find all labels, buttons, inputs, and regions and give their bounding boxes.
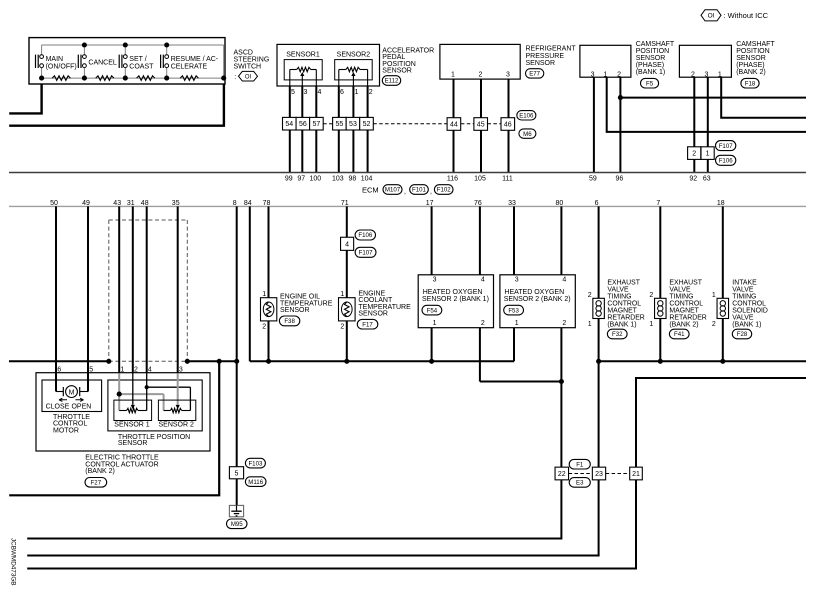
wire exhaust valve retarder bank2 pin1 to bus xyxy=(659,319,661,362)
svg-text:23: 23 xyxy=(595,471,603,478)
accelerator pedal position sensor box E112 xyxy=(277,44,380,86)
exhaust valve timing control magnet retarder bank2 coil F41 xyxy=(649,292,666,328)
svg-text:78: 78 xyxy=(263,200,271,207)
HO2S bank2 labels xyxy=(504,289,571,303)
wire ECM 8 ground wire to M95 xyxy=(236,206,238,505)
APP sensor pin numbers 5 3 4 6 1 2 xyxy=(291,89,373,96)
svg-text:VALVE: VALVE xyxy=(669,286,691,293)
svg-text:1: 1 xyxy=(588,321,592,328)
svg-text:OI: OI xyxy=(708,13,715,20)
throttle control motor M symbol xyxy=(56,373,88,397)
wire APP pin3 to ECM 97 xyxy=(301,86,303,173)
svg-text:TIMING: TIMING xyxy=(669,293,693,300)
svg-text:(BANK 1): (BANK 1) xyxy=(732,322,761,329)
wire ECM 18 to intake valve solenoid xyxy=(722,206,724,298)
connector F5 oval xyxy=(641,78,659,88)
svg-text:(BANK 2): (BANK 2) xyxy=(736,69,766,76)
svg-text:F1: F1 xyxy=(576,461,584,468)
svg-text:POSITION: POSITION xyxy=(736,48,769,55)
svg-text:EXHAUST: EXHAUST xyxy=(669,279,702,286)
ground net wire segment shield to case drop xyxy=(187,360,236,362)
node wire6 on valve bus xyxy=(596,359,601,364)
svg-text:: Without ICC: : Without ICC xyxy=(724,11,769,20)
actuator pin numbers 6 5 1 2 4 3 xyxy=(57,367,183,374)
dashed link between connectors 22 23 21 xyxy=(569,473,630,475)
svg-text:CONTROL: CONTROL xyxy=(732,301,766,308)
svg-text:111: 111 xyxy=(502,176,513,183)
svg-text:SOLENOID: SOLENOID xyxy=(732,308,768,315)
wire ECM 48 to TPS pin4 xyxy=(146,206,148,373)
svg-text:CONTROL: CONTROL xyxy=(669,301,703,308)
node wire7 on valve bus xyxy=(658,359,663,364)
svg-text:M116: M116 xyxy=(248,479,263,486)
connector F18 oval xyxy=(741,78,759,88)
wire ECM 43 to TPS pin1 xyxy=(118,206,120,373)
svg-text:TIMING: TIMING xyxy=(732,293,756,300)
svg-text::: : xyxy=(234,74,236,81)
shield ground node right xyxy=(185,359,190,364)
connector terminal box 5 xyxy=(229,467,243,479)
svg-text:F107: F107 xyxy=(359,250,374,257)
svg-text:1: 1 xyxy=(515,320,519,327)
svg-text:4: 4 xyxy=(318,89,322,96)
svg-text:F103: F103 xyxy=(248,460,263,467)
svg-text:VALVE: VALVE xyxy=(607,286,629,293)
svg-text:COAST: COAST xyxy=(129,63,154,70)
svg-text:3: 3 xyxy=(515,277,519,284)
svg-text:M: M xyxy=(69,389,75,396)
node 71 on sensor ground bus xyxy=(344,359,349,364)
valve timing bus 6-7-18 to right edge xyxy=(599,360,806,362)
svg-text:4: 4 xyxy=(562,277,566,284)
svg-text:80: 80 xyxy=(556,200,564,207)
svg-text:45: 45 xyxy=(477,122,485,129)
svg-text:2: 2 xyxy=(134,367,138,374)
wire HO2S bank1 pin2 to junction xyxy=(479,328,481,382)
svg-text:35: 35 xyxy=(172,200,180,207)
svg-text:MAGNET: MAGNET xyxy=(669,308,699,315)
svg-text:2: 2 xyxy=(562,320,566,327)
svg-text:CANCEL: CANCEL xyxy=(88,60,117,67)
svg-text:E112: E112 xyxy=(385,78,399,85)
connector M95 oval xyxy=(227,519,248,529)
APP sensor2 potentiometer xyxy=(339,67,368,86)
connector terminal box 57 xyxy=(310,117,324,130)
engine coolant temperature sensor F17 xyxy=(339,298,356,321)
resistor R2 in ASCD switch xyxy=(96,76,114,81)
motor close open labels xyxy=(46,403,92,410)
wire engine oil temp sensor pin2 to bus xyxy=(268,321,270,361)
connector M116 oval xyxy=(245,477,266,487)
svg-text:1: 1 xyxy=(355,89,359,96)
wire ECM 80 to HO2S bank2 pin4 xyxy=(560,206,562,274)
wire ECM 76 to HO2S bank1 pin4 xyxy=(479,206,481,274)
connector F106 oval top xyxy=(355,230,375,240)
svg-text:8: 8 xyxy=(233,200,237,207)
connector F32 oval xyxy=(607,329,627,339)
svg-text:RETARDER: RETARDER xyxy=(669,315,706,322)
svg-text:SENSOR: SENSOR xyxy=(358,311,388,318)
connector F41 oval xyxy=(669,329,689,339)
svg-text:103: 103 xyxy=(332,176,344,183)
svg-text:OI: OI xyxy=(245,74,252,80)
shield dashed box around TPS wires xyxy=(109,220,188,361)
connector terminal box 1 camshaft xyxy=(701,147,714,160)
case ground drop wire exiting bottom-left xyxy=(9,361,219,495)
wire ECM 71 to engine coolant temp sensor xyxy=(346,206,348,297)
svg-text:7: 7 xyxy=(656,200,660,207)
APP sensor2 sub-box xyxy=(335,60,373,80)
wire refrigerant pin3 to ECM 111 xyxy=(508,79,510,172)
svg-text:MOTOR: MOTOR xyxy=(53,427,79,434)
HO2S bank1 labels xyxy=(422,289,489,303)
connector terminal box 4 xyxy=(341,237,354,250)
switch SET / COAST xyxy=(119,45,154,78)
wire ECM 50 to throttle motor pin6 xyxy=(55,206,57,391)
wire APP pin4 to ECM 100 xyxy=(315,86,317,173)
wire camshaft2 pin3 to ECM 63 xyxy=(707,77,709,172)
svg-text:MAGNET: MAGNET xyxy=(607,308,637,315)
wire HO2S bank2 pin1 to bus corner xyxy=(513,328,515,362)
connector terminal box 52 xyxy=(360,117,374,130)
sensor ground bus 84-78-71-17-33 xyxy=(250,360,514,362)
camshaft bank1 pin numbers 3 1 2 xyxy=(591,72,622,79)
refrigerant pressure sensor box E77 xyxy=(440,44,520,79)
electric throttle control actuator box F27 xyxy=(36,373,210,451)
svg-text:46: 46 xyxy=(504,122,512,129)
connector E106 oval xyxy=(517,111,536,120)
svg-text:52: 52 xyxy=(363,121,371,128)
switch RESUME / AC- CELERATE xyxy=(161,45,219,78)
wire APP pin1 to ECM 98 xyxy=(352,86,354,173)
TPS sensor2 sub-box xyxy=(158,400,195,420)
ASCD inner bottom rail wire xyxy=(42,77,224,79)
svg-text:CELERATE: CELERATE xyxy=(171,63,208,70)
APP sensor internal labels xyxy=(286,52,370,59)
ECM strip top line xyxy=(9,172,806,174)
heated oxygen sensor 2 bank2 box F53 xyxy=(500,275,575,328)
svg-text:2: 2 xyxy=(340,323,344,330)
svg-text:92: 92 xyxy=(689,176,697,183)
HO2S bank1 pin numbers xyxy=(433,277,485,327)
connector terminal box 22 xyxy=(555,467,569,480)
wire ECM 35 to TPS pin3 xyxy=(177,206,179,373)
APP sensor1 potentiometer xyxy=(290,67,317,86)
svg-text:3: 3 xyxy=(433,277,437,284)
svg-text:F18: F18 xyxy=(745,80,756,87)
ECM label with connectors M107 F101 F102 xyxy=(362,185,453,196)
svg-text:SENSOR 2: SENSOR 2 xyxy=(159,422,195,429)
node ground drop wire xyxy=(217,359,222,364)
svg-text:6: 6 xyxy=(595,200,599,207)
camshaft position sensor (phase) bank1 box F5 xyxy=(580,45,631,77)
connector F103 oval xyxy=(245,458,265,468)
svg-text:84: 84 xyxy=(244,200,252,207)
svg-text:SENSOR1: SENSOR1 xyxy=(286,52,320,59)
svg-text:SENSOR: SENSOR xyxy=(382,68,412,75)
svg-text:CONTROL: CONTROL xyxy=(607,301,641,308)
svg-text:2: 2 xyxy=(692,151,696,158)
camshaft position sensor (phase) bank2 box F18 xyxy=(679,45,731,77)
svg-text:1: 1 xyxy=(340,291,344,298)
svg-text:(BANK 1): (BANK 1) xyxy=(636,69,666,76)
wire engine coolant temp sensor pin2 to bus xyxy=(346,321,348,361)
svg-text:98: 98 xyxy=(349,176,357,183)
svg-text:49: 49 xyxy=(82,200,90,207)
shield ground node left xyxy=(106,359,111,364)
svg-text:2: 2 xyxy=(588,292,592,299)
svg-text:EXHAUST: EXHAUST xyxy=(607,279,640,286)
ground net wire left segment to shield xyxy=(9,360,109,362)
wire ECM 78 to engine oil temp sensor xyxy=(268,206,270,297)
svg-text:RETARDER: RETARDER xyxy=(607,315,644,322)
svg-text:F17: F17 xyxy=(362,321,373,328)
wire ECM 33 to HO2S bank2 pin3 xyxy=(513,206,515,274)
ECM top row pin numbers xyxy=(285,176,711,183)
connector E3 oval xyxy=(569,478,590,488)
ECM bottom row pin numbers xyxy=(50,200,725,207)
resistor R3 in ASCD switch xyxy=(137,76,155,81)
engine oil temperature sensor F38 xyxy=(261,298,277,321)
svg-text:F106: F106 xyxy=(358,232,373,239)
net from right edge through connector 21 xyxy=(636,378,806,467)
svg-text:99: 99 xyxy=(285,176,293,183)
svg-text:43: 43 xyxy=(113,200,121,207)
svg-text:F106: F106 xyxy=(719,158,734,165)
node TPS pin1 split xyxy=(117,392,122,397)
svg-text:(BANK 1): (BANK 1) xyxy=(607,322,636,329)
connector M6 oval xyxy=(519,129,536,138)
wire HO2S bank2 pin2 through connector 22 to bottom rail xyxy=(27,328,561,539)
switch MAIN (ON/OFF) xyxy=(36,45,77,78)
svg-text:(BANK 2): (BANK 2) xyxy=(669,322,698,329)
svg-text:SENSOR 2 (BANK 1): SENSOR 2 (BANK 1) xyxy=(422,296,489,303)
svg-text:M107: M107 xyxy=(385,187,401,194)
legend: Without ICC designator hexagon OI xyxy=(701,10,721,21)
connector F54 oval xyxy=(422,305,442,315)
svg-text:E106: E106 xyxy=(519,113,534,120)
node ground net at wire 8 xyxy=(234,359,239,364)
wire camshaft1 pin3 to ECM 59 xyxy=(593,77,595,172)
camshaft bank2 pin numbers 2 3 1 xyxy=(691,72,722,79)
branch wire from node 96 to right edge xyxy=(620,97,806,99)
connector E77 oval xyxy=(526,69,544,78)
svg-text:(ON/OFF): (ON/OFF) xyxy=(46,63,77,70)
svg-text:5: 5 xyxy=(89,367,93,374)
connector terminal box 2 camshaft xyxy=(688,147,701,160)
svg-text:F107: F107 xyxy=(719,143,734,150)
ASCD steering switch outer box xyxy=(29,38,225,84)
svg-text:18: 18 xyxy=(717,200,725,207)
svg-text:HEATED OXYGEN: HEATED OXYGEN xyxy=(423,289,483,296)
heated oxygen bank1 pin2 net to wire80 xyxy=(480,381,562,383)
TPS sensor labels xyxy=(114,422,194,429)
svg-text:2: 2 xyxy=(369,89,373,96)
node TPS pin4 split xyxy=(145,385,149,389)
TPS wire pin1 gray feed xyxy=(119,373,163,410)
svg-text:INTAKE: INTAKE xyxy=(732,279,757,286)
svg-text:1: 1 xyxy=(451,72,455,79)
node on camshaft1 pin2 wire xyxy=(618,95,623,100)
svg-text:HEATED OXYGEN: HEATED OXYGEN xyxy=(504,289,564,296)
svg-text:SENSOR: SENSOR xyxy=(736,55,766,62)
F17 pin numbers xyxy=(340,291,344,330)
svg-text:SWITCH: SWITCH xyxy=(234,64,262,71)
ASCD inner top rail wire xyxy=(42,44,224,46)
node wire80 junction xyxy=(559,379,564,384)
TPS sensor1 potentiometer xyxy=(119,408,147,412)
connector F17 oval xyxy=(357,319,378,329)
wire refrigerant pin1 to ECM 116 xyxy=(453,79,455,172)
svg-text:F41: F41 xyxy=(674,331,685,338)
svg-text:1: 1 xyxy=(649,321,653,328)
TPS wire pin4 feed xyxy=(147,373,191,410)
svg-text:2: 2 xyxy=(262,323,266,330)
connector F28 oval xyxy=(732,329,751,339)
TPS wire pin3 wiper gray xyxy=(176,373,180,409)
node wire18 on valve bus xyxy=(720,359,725,364)
wire exhaust valve retarder bank1 pin1 through connector 23 to bottom rail xyxy=(27,319,598,556)
connector terminal box 54 xyxy=(283,117,297,130)
switch CANCEL xyxy=(78,45,117,78)
connector terminal box 55 xyxy=(333,117,347,130)
svg-text:53: 53 xyxy=(349,121,357,128)
svg-text:97: 97 xyxy=(297,176,305,183)
svg-text:F54: F54 xyxy=(427,307,438,314)
wire camshaft1 pin1 to right edge xyxy=(607,77,806,132)
svg-text:2: 2 xyxy=(479,72,483,79)
svg-text:1: 1 xyxy=(712,292,716,299)
connector F1 oval xyxy=(569,459,590,469)
wire APP pin6 to ECM 103 xyxy=(338,86,340,173)
svg-text:E77: E77 xyxy=(529,71,540,78)
svg-text:SENSOR: SENSOR xyxy=(118,440,148,447)
svg-text:2: 2 xyxy=(481,320,485,327)
svg-text:SENSOR: SENSOR xyxy=(636,55,666,62)
connector terminal box 44 xyxy=(447,118,461,131)
svg-text:F53: F53 xyxy=(508,307,519,314)
svg-text:(PHASE): (PHASE) xyxy=(736,62,764,69)
svg-text:1: 1 xyxy=(706,151,710,158)
svg-text:CLOSE: CLOSE xyxy=(46,403,70,410)
svg-text:1: 1 xyxy=(262,291,266,298)
svg-text:71: 71 xyxy=(341,200,349,207)
svg-text:F5: F5 xyxy=(646,80,654,87)
svg-text:F101: F101 xyxy=(412,187,427,194)
svg-text:SENSOR 2 (BANK 2): SENSOR 2 (BANK 2) xyxy=(504,296,571,303)
wire ECM 84 to sensor ground bus xyxy=(249,206,251,361)
intake valve timing control solenoid valve coil F28 xyxy=(712,292,729,328)
svg-text:63: 63 xyxy=(703,176,711,183)
connector F106 oval bottom xyxy=(716,155,736,165)
connector terminal box 53 xyxy=(346,117,360,130)
svg-text:54: 54 xyxy=(285,121,293,128)
connector terminal box 46 xyxy=(501,118,515,131)
svg-text:ECM: ECM xyxy=(362,185,379,194)
connector terminal box 56 xyxy=(296,117,310,130)
connector terminal box 21 xyxy=(630,467,643,480)
svg-text:VALVE: VALVE xyxy=(732,286,754,293)
connector terminal box 45 xyxy=(474,118,488,131)
wire from ASCD bottom-right exiting left xyxy=(9,84,224,126)
svg-text:44: 44 xyxy=(450,122,458,129)
svg-text:E3: E3 xyxy=(576,480,584,487)
ASCD label text xyxy=(234,50,270,81)
svg-text:SET /: SET / xyxy=(129,56,146,63)
wire ECM 49 to throttle motor pin5 xyxy=(87,206,89,391)
exhaust valve timing control magnet retarder bank1 coil F32 xyxy=(588,292,605,328)
svg-text:100: 100 xyxy=(309,176,321,183)
throttle position sensor box xyxy=(108,380,202,431)
svg-text:(BANK 2): (BANK 2) xyxy=(85,468,115,475)
ground symbol M95 xyxy=(229,505,243,516)
svg-text:1: 1 xyxy=(433,320,437,327)
svg-text:6: 6 xyxy=(340,89,344,96)
wire HO2S bank1 pin1 to bus xyxy=(431,328,433,362)
svg-text:RESUME / AC-: RESUME / AC- xyxy=(171,56,219,63)
wire APP pin5 to ECM 99 xyxy=(289,86,291,173)
svg-text:104: 104 xyxy=(361,176,373,183)
connector F107 oval top xyxy=(716,141,736,151)
node 78 on sensor ground bus xyxy=(266,359,271,364)
ECM strip bottom line xyxy=(9,205,806,207)
heated oxygen sensor 2 bank1 box F54 xyxy=(418,275,493,328)
svg-text:1: 1 xyxy=(120,367,124,374)
connector F38 oval xyxy=(279,316,299,326)
wire from ASCD bottom-left exiting left xyxy=(9,84,41,113)
svg-text:F102: F102 xyxy=(437,187,452,194)
TPS sensor1 sub-box xyxy=(114,400,152,420)
HO2S bank2 pin numbers xyxy=(515,277,567,327)
svg-text:SENSOR: SENSOR xyxy=(526,60,556,67)
ASCD inner right vertical wire xyxy=(223,45,225,78)
svg-text:SENSOR2: SENSOR2 xyxy=(337,52,371,59)
svg-text:21: 21 xyxy=(632,471,640,478)
wire ECM 17 to HO2S bank1 pin3 xyxy=(431,206,433,274)
svg-text:SENSOR: SENSOR xyxy=(280,307,310,314)
svg-text:REFRIGERANT: REFRIGERANT xyxy=(526,46,577,53)
svg-text:6: 6 xyxy=(57,367,61,374)
svg-text:TIMING: TIMING xyxy=(607,293,631,300)
wire ECM 7 to exhaust valve retarder bank2 xyxy=(659,206,661,298)
svg-text:CAMSHAFT: CAMSHAFT xyxy=(636,41,675,48)
wire camshaft2 pin2 to ECM 92 xyxy=(693,77,695,172)
svg-text:STEERING: STEERING xyxy=(234,57,270,64)
F38 pin numbers xyxy=(262,291,266,330)
svg-text:F28: F28 xyxy=(737,331,748,338)
svg-text:116: 116 xyxy=(447,176,458,183)
wire APP pin2 to ECM 104 xyxy=(367,86,369,173)
svg-text:4: 4 xyxy=(148,367,152,374)
wire refrigerant pin2 to ECM 105 xyxy=(480,79,482,172)
connector F107 oval bottom xyxy=(355,247,376,257)
svg-text:VALVE: VALVE xyxy=(732,315,754,322)
svg-text:MAIN: MAIN xyxy=(46,56,64,63)
svg-text:JCBWMD473GB: JCBWMD473GB xyxy=(9,538,15,586)
wire connector 21 to bottom rail xyxy=(27,480,636,569)
svg-text:M6: M6 xyxy=(523,131,532,138)
svg-text:31: 31 xyxy=(127,200,135,207)
svg-text:,: , xyxy=(404,189,406,196)
ASCD junction dots on rails xyxy=(39,42,226,80)
TPS wire pin2 wiper xyxy=(131,373,135,409)
motor close open arrows xyxy=(59,398,84,401)
svg-text:ASCD: ASCD xyxy=(234,50,253,57)
svg-text:59: 59 xyxy=(589,176,597,183)
refrigerant sensor pin numbers 1 2 3 xyxy=(451,72,510,79)
svg-text:55: 55 xyxy=(336,121,344,128)
resistor R4 in ASCD switch xyxy=(180,76,198,81)
